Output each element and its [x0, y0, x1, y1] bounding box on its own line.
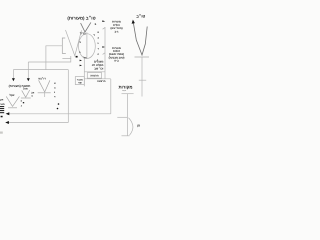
mark under coil	[1, 116, 3, 118]
junction dots	[58, 103, 60, 105]
svg-text:טו״ב: טו״ב	[136, 13, 145, 18]
svg-text:וכו׳ שב: וכו׳ שב	[94, 66, 103, 70]
table divider 1	[84, 71, 105, 73]
svg-text:אק: אק	[0, 99, 4, 102]
coil (black striped blob)	[0, 106, 4, 113]
wire R2	[6, 122, 68, 124]
dot below antenna A2	[23, 102, 24, 103]
earphone upper tick	[117, 116, 127, 118]
svg-text:מגל: מגל	[23, 87, 28, 91]
antenna A2 base bar	[21, 97, 31, 99]
grid bracket	[62, 38, 66, 53]
svg-text:דו״צפ: דו״צפ	[38, 76, 46, 80]
antenna A5 arrow tip	[132, 20, 135, 24]
svg-text:הרצאה: הרצאה	[90, 75, 99, 78]
brace pointer b2	[102, 46, 105, 48]
wire R1 riser to table	[110, 79, 112, 114]
antenna A5 feed wire	[141, 57, 143, 97]
wire arrow V at x28	[27, 62, 29, 80]
tube V filament	[66, 30, 82, 56]
antenna A5 (top right)	[133, 21, 147, 55]
antenna A4 (left small)	[6, 96, 19, 106]
amplifier box	[75, 77, 84, 85]
table right vertical	[104, 27, 106, 79]
svg-text:ה: ה	[97, 53, 99, 56]
svg-text:(בטל יצא): (בטל יצא)	[111, 26, 123, 30]
antenna A4 base bar	[8, 107, 17, 109]
wire arrow V at x13	[12, 70, 14, 80]
earphone feed vertical	[126, 94, 128, 136]
svg-text:גריד: גריד	[80, 32, 86, 36]
svg-text:(מעורות) טו״ב: (מעורות) טו״ב	[67, 15, 95, 20]
antenna A3 base bar	[38, 92, 51, 94]
brace tick upper	[103, 28, 105, 30]
svg-text:א: א	[97, 31, 99, 34]
squiggle under label	[122, 89, 126, 92]
antenna A5 base bar	[135, 56, 150, 58]
earphone arc	[129, 118, 133, 135]
faint corner smudge	[0, 132, 3, 134]
tube envelope ellipse	[79, 34, 96, 59]
wire long vertical x68	[67, 70, 69, 123]
wire H1 cathode to riser	[62, 56, 70, 59]
tube bottom pin dot	[76, 56, 78, 58]
svg-text:מקורות: מקורות	[118, 84, 132, 89]
antenna A3	[39, 80, 50, 92]
brace tick lower	[103, 53, 105, 55]
svg-text:פן: פן	[137, 124, 140, 128]
bullets left of table	[80, 60, 82, 62]
svg-text:ב: ב	[95, 22, 97, 26]
feed tick	[139, 79, 146, 81]
earphone top bar	[122, 93, 134, 95]
brace pointer b1	[102, 20, 105, 22]
table left vertical	[83, 58, 85, 86]
wire R1 long horizontal	[9, 113, 111, 115]
tube axis wire	[86, 32, 88, 58]
svg-text:אקל: אקל	[10, 93, 15, 97]
antenna A1 (small V above tube)	[81, 22, 91, 32]
earphone lower tick	[122, 135, 130, 137]
svg-text:הרצאה: הרצאה	[97, 80, 106, 83]
wire H4 grid tap	[46, 46, 62, 70]
arrowhead R2 left	[5, 121, 9, 124]
boxed row text	[87, 73, 101, 79]
svg-text:מגב: מגב	[0, 103, 5, 106]
antenna A3 stem	[44, 93, 46, 97]
wire H2	[28, 58, 71, 62]
antenna A2 (mid small)	[22, 90, 30, 97]
svg-text:שני: שני	[78, 81, 82, 84]
svg-text:ב-ט: ב-ט	[114, 60, 119, 63]
wire H3	[13, 69, 68, 71]
arrowhead R1 left	[6, 112, 10, 115]
table bottom	[84, 78, 111, 80]
